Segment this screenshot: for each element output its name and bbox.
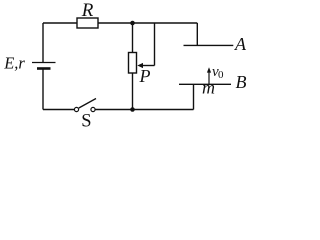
svg-text:B: B: [236, 72, 247, 92]
svg-text:E,r: E,r: [3, 54, 25, 73]
svg-text:m: m: [202, 77, 215, 97]
svg-text:R: R: [81, 0, 94, 21]
svg-text:A: A: [234, 34, 247, 54]
svg-text:0: 0: [218, 69, 224, 81]
svg-text:S: S: [81, 111, 91, 130]
svg-text:P: P: [139, 66, 151, 86]
